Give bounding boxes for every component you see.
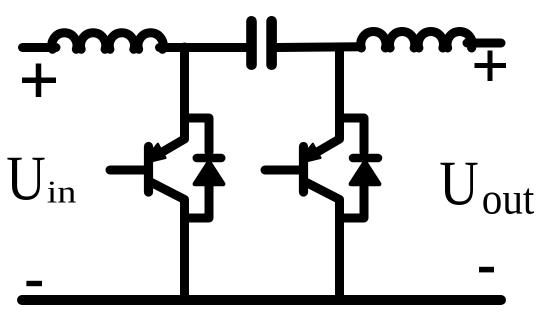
wire diode D2 bottom branch [340,182,365,218]
plus sign right [475,51,507,82]
transistor Q2 emitter [304,181,340,300]
wire capacitor to L2 (node B) [277,42,360,52]
inductor L2 [361,32,472,48]
transistor Q1 bar [144,147,153,193]
wire diode D1 bottom branch [185,182,210,218]
plus sign left [22,64,56,98]
transistor Q2 bar [299,147,308,193]
wire input terminal to L1 [23,43,57,52]
svg-text:U: U [6,144,46,214]
wire right leg collector drop [313,47,340,155]
wire diode D2 top branch [340,118,365,152]
minus sign right [479,267,494,273]
minus sign left [26,281,42,286]
wire bottom rail [22,295,501,305]
svg-text:U: U [439,148,479,219]
transistor Q2 gate lead [265,166,301,175]
wire L1 to capacitor (node A) [160,43,248,52]
svg-text:out: out [482,175,535,224]
diode D2 triangle [351,162,379,184]
transistor Q2 collector arrowhead [306,144,320,161]
transistor Q1 collector arrowhead [151,144,165,161]
diode D2 cathode bar [353,154,378,163]
capacitor C1 left plate [246,21,257,64]
capacitor C1 right plate [266,21,277,64]
diode D1 cathode bar [197,154,221,163]
wire left leg collector drop [158,47,185,155]
diode D1 triangle [195,162,223,184]
svg-text:in: in [47,174,77,210]
inductor L1 [52,33,163,49]
wire L2 to output terminal [467,39,501,48]
transistor Q1 emitter [149,181,185,300]
transistor Q1 gate lead [110,166,146,175]
wire diode D1 top branch [185,118,210,152]
